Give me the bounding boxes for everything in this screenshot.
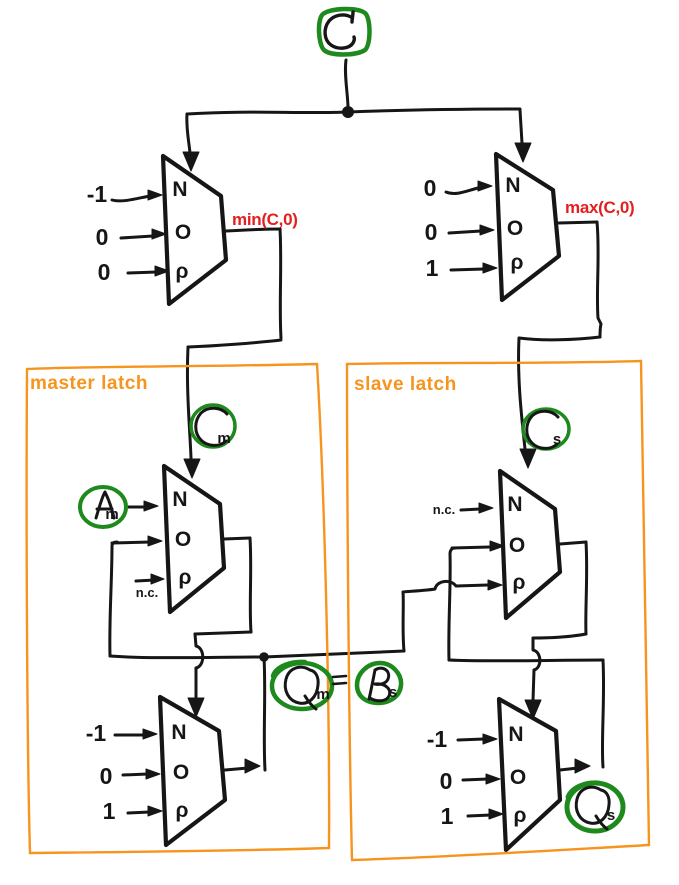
svg-text:m: m [316, 686, 329, 703]
svg-text:s: s [553, 431, 561, 448]
svg-text:n.c.: n.c. [136, 585, 158, 600]
svg-text:O: O [173, 761, 189, 784]
svg-text:0: 0 [425, 219, 438, 245]
svg-text:N: N [172, 178, 187, 201]
svg-text:1: 1 [441, 803, 454, 829]
svg-text:0: 0 [100, 763, 113, 789]
svg-text:ρ: ρ [179, 566, 192, 589]
svg-text:ρ: ρ [511, 251, 524, 274]
svg-text:0: 0 [440, 768, 453, 794]
svg-text:N: N [505, 174, 520, 197]
svg-text:n.c.: n.c. [433, 502, 455, 517]
svg-text:-1: -1 [86, 720, 107, 746]
svg-text:O: O [509, 534, 525, 557]
svg-text:O: O [507, 217, 523, 240]
svg-text:master latch: master latch [30, 373, 148, 394]
svg-text:m: m [105, 506, 118, 523]
svg-text:O: O [175, 528, 191, 551]
svg-text:min(C,0): min(C,0) [232, 210, 298, 229]
svg-text:m: m [217, 430, 230, 447]
svg-text:0: 0 [98, 259, 111, 285]
svg-text:0: 0 [96, 224, 109, 250]
svg-text:-1: -1 [427, 726, 448, 752]
svg-text:O: O [175, 221, 191, 244]
svg-text:ρ: ρ [176, 260, 189, 283]
svg-text:s: s [607, 807, 615, 824]
svg-text:N: N [172, 488, 187, 511]
svg-text:O: O [510, 766, 526, 789]
svg-text:ρ: ρ [513, 571, 526, 594]
svg-text:0: 0 [424, 175, 437, 201]
svg-text:slave latch: slave latch [354, 374, 457, 395]
svg-text:N: N [171, 721, 186, 744]
svg-text:s: s [389, 684, 397, 701]
svg-text:1: 1 [103, 798, 116, 824]
svg-text:N: N [508, 723, 523, 746]
svg-text:1: 1 [426, 255, 439, 281]
svg-text:ρ: ρ [176, 799, 189, 822]
svg-text:N: N [507, 493, 522, 516]
svg-text:max(C,0): max(C,0) [565, 198, 634, 217]
svg-text:-1: -1 [87, 181, 108, 207]
svg-text:ρ: ρ [514, 804, 527, 827]
